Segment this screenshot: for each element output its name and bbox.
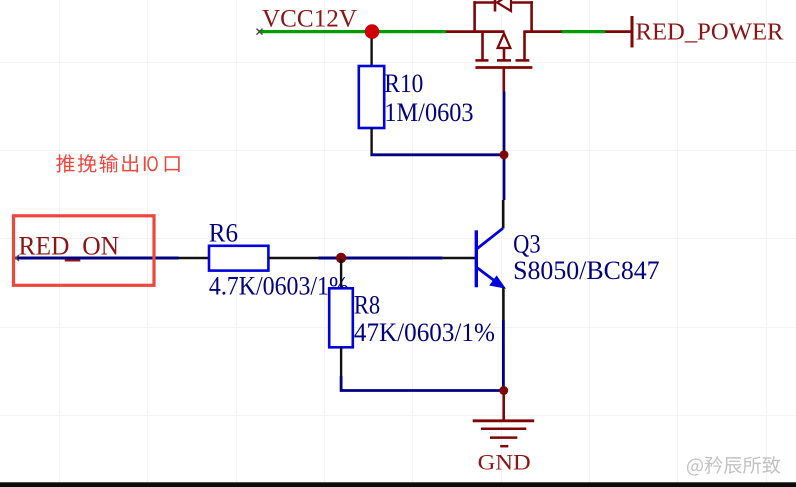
svg-text:1M/0603: 1M/0603 (384, 98, 473, 127)
svg-text:R6: R6 (209, 219, 238, 248)
svg-text:S8050/BC847: S8050/BC847 (513, 255, 660, 285)
svg-text:RED_POWER: RED_POWER (636, 18, 785, 45)
svg-text:RED_ON: RED_ON (19, 230, 120, 260)
svg-text:VCC12V: VCC12V (262, 6, 357, 33)
svg-text:4.7K/0603/1%: 4.7K/0603/1% (209, 272, 349, 301)
svg-text:47K/0603/1%: 47K/0603/1% (354, 318, 495, 347)
svg-text:R10: R10 (384, 69, 423, 98)
svg-text:GND: GND (478, 449, 531, 474)
svg-text:R8: R8 (354, 290, 380, 319)
